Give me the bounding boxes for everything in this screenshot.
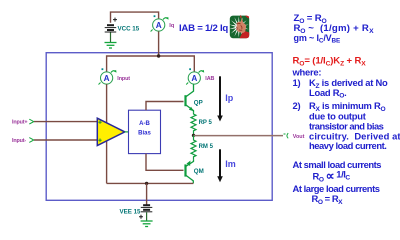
current arrow Im [217,149,223,182]
svg-text:Vout: Vout [293,134,305,140]
svg-text:Input+: Input+ [12,120,27,126]
wire VCC battery to ground [110,33,112,43]
wire VEE drop [146,183,148,205]
svg-text:QM: QM [194,168,204,175]
svg-text:A: A [156,21,162,30]
svg-text:2): 2) [293,100,301,111]
label Vout [293,134,305,140]
battery VEE 15 [139,205,152,219]
connector Input+ [29,119,34,124]
op-amp A1 [97,118,128,145]
ammeter IAB [186,68,204,84]
connector Vout [284,133,289,138]
label RP 5 [199,120,213,126]
svg-text:A-B: A-B [139,121,150,127]
wire bias block to QM base [146,154,184,171]
label IAB [205,76,214,82]
svg-text:RP 5: RP 5 [199,120,213,126]
logo icon (green starburst badge) [229,15,249,38]
formula text block (blue/red) [292,13,400,206]
transistor QM [186,160,194,184]
wire Input- to op-amp [34,139,98,141]
svg-text:Im: Im [225,159,236,169]
svg-text:Input: Input [117,76,130,82]
svg-text:A: A [104,74,110,83]
battery VCC 15 [105,18,117,32]
wire bias block to QP base [146,102,184,111]
svg-text:Bias: Bias [138,131,151,137]
label Input- [12,138,26,144]
label Input [117,76,130,82]
svg-text:Input-: Input- [12,138,26,144]
svg-text:RM 5: RM 5 [199,144,214,150]
svg-text:Ip: Ip [225,93,234,103]
wire output junction to Vout [194,135,284,137]
wire inner top rail [107,56,195,72]
ground (VCC) [105,43,117,49]
svg-text:A: A [191,74,197,83]
label Iq [169,23,175,29]
wire VEE battery to ground [146,212,148,221]
node output junction [192,134,195,137]
svg-text:QP: QP [194,99,203,106]
wire bottom rail [107,182,194,184]
A-B bias block [129,110,161,153]
svg-text:IAB = 1/2 Iq: IAB = 1/2 Iq [179,23,228,34]
svg-text:heavy load current.: heavy load current. [309,140,386,151]
current arrow Ip [217,76,223,121]
svg-text:gm ~ IC/VBE: gm ~ IC/VBE [294,33,342,45]
svg-text:IAB: IAB [205,76,214,82]
label Im [225,159,236,169]
svg-text:where:: where: [292,66,322,77]
node VEE junction [145,182,148,185]
ammeter Input [99,68,117,84]
svg-text:Load RO.: Load RO. [309,87,347,100]
svg-text:1): 1) [293,77,301,88]
transistor QP [186,84,194,112]
resistor RM 5 [191,135,196,159]
label VEE 15 [120,209,142,216]
svg-text:VEE 15: VEE 15 [120,209,142,216]
label QM [194,168,204,175]
node junction top rail [157,54,160,57]
label RM 5 [199,144,214,150]
svg-text:RO = RX: RO = RX [312,193,344,206]
resistor RP 5 [191,113,196,136]
svg-text:VCC 15: VCC 15 [118,26,140,33]
label Input+ [12,120,27,126]
svg-text:Iq: Iq [169,23,175,29]
label IAB = 1/2 Iq [179,23,228,34]
wire Input ammeter down to bottom rail [106,84,108,183]
connector Input- [29,138,34,143]
label Ip [225,93,234,103]
wire VCC top rail to Iq ammeter [111,12,159,23]
ground (VEE) [141,221,153,227]
svg-text:RO ∝ 1/IC: RO ∝ 1/IC [313,169,351,184]
label QP [194,99,203,106]
ammeter Iq [151,15,169,31]
label VCC 15 [118,26,140,33]
outer amplifier boundary box [46,53,272,201]
wire Iq ammeter down to inner rail [158,31,160,56]
wire Input+ to op-amp [34,121,98,123]
